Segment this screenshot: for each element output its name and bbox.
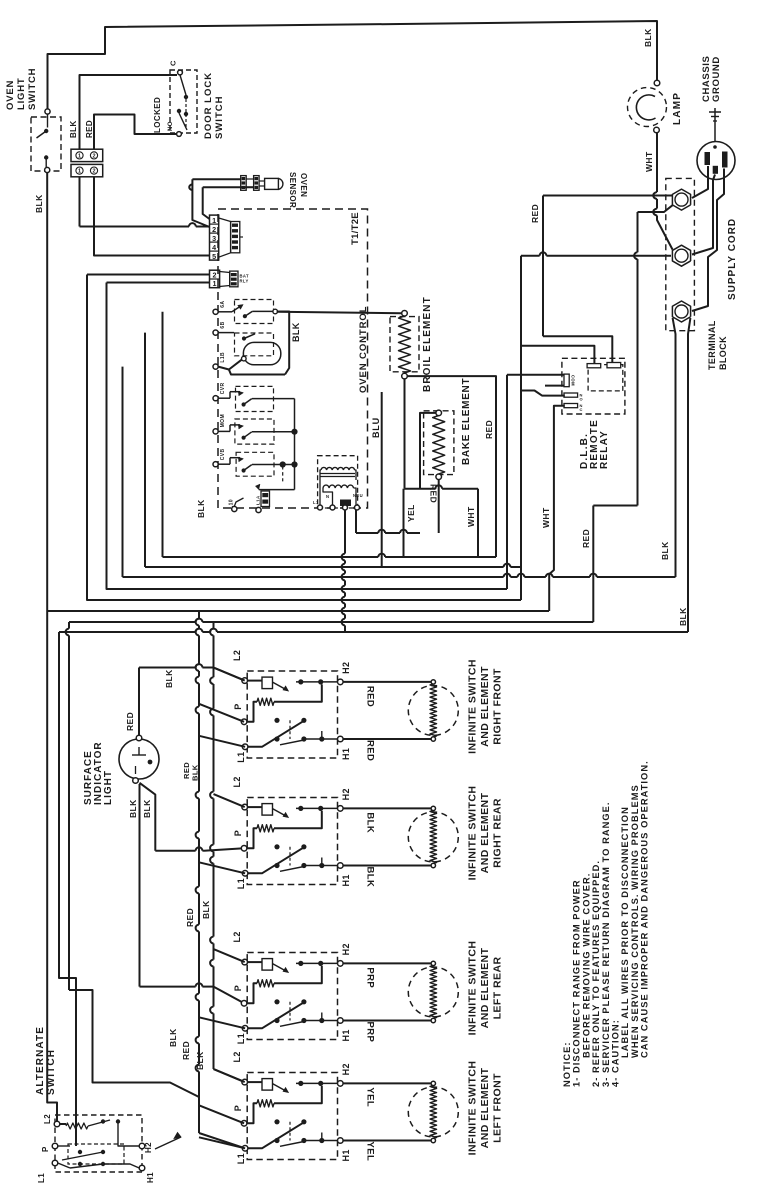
svg-text:BLK: BLK [142, 799, 152, 818]
svg-text:RED: RED [185, 908, 195, 927]
svg-text:BLK: BLK [660, 541, 670, 560]
svg-text:LABEL ALL WIRES PRIOR TO DISCO: LABEL ALL WIRES PRIOR TO DISCONNECTION [620, 806, 630, 1058]
svg-text:INFINITE SWITCH: INFINITE SWITCH [467, 659, 479, 754]
svg-text:NEU: NEU [353, 493, 363, 498]
svg-text:BLK: BLK [291, 322, 301, 342]
svg-text:RED: RED [365, 686, 376, 707]
svg-text:3: 3 [212, 234, 216, 243]
svg-text:L1: L1 [37, 1173, 46, 1183]
svg-text:RED: RED [125, 712, 135, 731]
svg-text:COM: COM [571, 375, 576, 386]
svg-text:YEL: YEL [365, 1142, 376, 1162]
svg-text:L1B: L1B [220, 352, 226, 363]
svg-text:RED: RED [181, 1041, 191, 1060]
svg-text:4: 4 [212, 243, 216, 252]
svg-text:P: P [233, 703, 243, 709]
svg-text:6A: 6A [220, 301, 226, 308]
svg-text:LEFT REAR: LEFT REAR [492, 956, 504, 1019]
svg-text:H2: H2 [341, 788, 351, 800]
svg-text:OVEN: OVEN [299, 173, 308, 197]
svg-text:OVEN: OVEN [5, 80, 16, 110]
svg-text:H1: H1 [341, 1029, 351, 1041]
svg-text:P: P [233, 985, 243, 991]
svg-text:CAN CAUSE IMPROPER AND DANGERO: CAN CAUSE IMPROPER AND DANGEROUS OPERATI… [640, 760, 650, 1058]
svg-text:BLU: BLU [371, 417, 381, 438]
svg-text:2: 2 [92, 169, 95, 175]
svg-text:WHT: WHT [466, 506, 476, 527]
svg-text:INFINITE SWITCH: INFINITE SWITCH [467, 1061, 479, 1156]
svg-text:AND ELEMENT: AND ELEMENT [479, 792, 491, 873]
svg-text:SENSOR: SENSOR [288, 172, 297, 208]
svg-text:SWITCH: SWITCH [46, 1049, 57, 1095]
svg-text:1: 1 [78, 169, 81, 175]
svg-text:2: 2 [212, 225, 216, 234]
svg-text:H1: H1 [341, 874, 351, 886]
svg-text:PRP: PRP [365, 1022, 376, 1043]
svg-text:H2: H2 [341, 662, 351, 674]
svg-text:LEFT FRONT: LEFT FRONT [492, 1073, 504, 1143]
svg-text:1: 1 [78, 153, 81, 159]
svg-text:2: 2 [92, 153, 95, 159]
svg-text:L2: L2 [232, 776, 242, 787]
svg-text:P: P [41, 1146, 50, 1152]
svg-text:BLK: BLK [365, 867, 376, 888]
svg-text:RIGHT FRONT: RIGHT FRONT [492, 668, 504, 745]
svg-text:L1: L1 [236, 1153, 246, 1164]
svg-text:BLK: BLK [69, 120, 78, 138]
svg-text:BLK: BLK [164, 669, 174, 688]
svg-text:L1: L1 [236, 1033, 246, 1044]
svg-text:H2: H2 [341, 1063, 351, 1075]
svg-text:1: 1 [213, 279, 217, 288]
svg-text:TERMINAL: TERMINAL [707, 320, 717, 370]
svg-text:AND ELEMENT: AND ELEMENT [479, 947, 491, 1028]
svg-text:NOTICE:: NOTICE: [562, 1041, 572, 1087]
svg-text:RELAY: RELAY [599, 430, 610, 469]
svg-text:BLK: BLK [128, 799, 138, 818]
svg-text:5: 5 [212, 252, 216, 261]
svg-text:CVR: CVR [220, 382, 226, 394]
svg-text:L2: L2 [232, 931, 242, 942]
svg-text:SWITCH: SWITCH [214, 96, 225, 139]
svg-text:LIGHT: LIGHT [103, 770, 114, 805]
svg-text:NO: NO [168, 121, 174, 131]
svg-text:CVB: CVB [220, 448, 226, 460]
svg-text:BLK: BLK [168, 1028, 178, 1047]
svg-text:L1A: L1A [256, 495, 261, 505]
svg-text:SWITCH: SWITCH [27, 68, 38, 110]
svg-text:2- REFER ONLY TO FEATURES EQUI: 2- REFER ONLY TO FEATURES EQUIPPED. [591, 860, 601, 1087]
svg-text:3- SERVICER PLEASE RETURN DIAG: 3- SERVICER PLEASE RETURN DIAGRAM TO RAN… [601, 801, 611, 1087]
svg-text:L2: L2 [232, 1051, 242, 1062]
svg-text:H1: H1 [146, 1172, 155, 1183]
svg-text:YEL: YEL [365, 1087, 376, 1107]
svg-text:DOOR LOCK: DOOR LOCK [203, 72, 214, 139]
svg-text:L2: L2 [43, 1114, 52, 1124]
svg-text:RED: RED [85, 120, 94, 138]
svg-text:P: P [233, 830, 243, 836]
svg-text:L1: L1 [236, 751, 246, 762]
svg-text:BLK: BLK [34, 194, 44, 213]
svg-text:BLOCK: BLOCK [718, 336, 728, 370]
svg-text:BLK: BLK [196, 499, 206, 518]
svg-text:SUPPLY CORD: SUPPLY CORD [727, 218, 738, 300]
svg-text:LIGHT: LIGHT [16, 78, 27, 111]
svg-text:INFINITE SWITCH: INFINITE SWITCH [467, 786, 479, 881]
svg-text:MOM: MOM [220, 414, 226, 427]
svg-text:YEL: YEL [406, 504, 416, 522]
svg-text:PRP: PRP [365, 967, 376, 988]
svg-text:C: C [580, 407, 583, 412]
svg-text:BLK: BLK [201, 900, 211, 919]
svg-text:WHEN SERVICING CONTROLS. WIRIN: WHEN SERVICING CONTROLS. WIRING PROBLEMS [630, 784, 640, 1058]
svg-text:BLK: BLK [365, 812, 376, 833]
svg-text:GROUND: GROUND [711, 56, 722, 102]
svg-text:L2: L2 [232, 650, 242, 661]
svg-text:L1: L1 [313, 500, 319, 505]
svg-text:BLK: BLK [678, 607, 688, 626]
svg-text:H1: H1 [341, 748, 351, 760]
svg-text:L10: L10 [229, 499, 235, 509]
svg-text:C: C [169, 60, 178, 66]
svg-text:AND ELEMENT: AND ELEMENT [479, 1067, 491, 1148]
svg-text:RED: RED [484, 420, 494, 439]
svg-text:AND ELEMENT: AND ELEMENT [479, 666, 491, 747]
svg-text:BLK: BLK [191, 764, 200, 781]
svg-text:BAKE ELEMENT: BAKE ELEMENT [461, 378, 472, 465]
svg-text:H1: H1 [341, 1149, 351, 1161]
svg-text:OVEN CONTROL: OVEN CONTROL [358, 306, 369, 393]
svg-text:L1: L1 [236, 878, 246, 889]
svg-text:RIGHT REAR: RIGHT REAR [492, 798, 504, 868]
svg-text:H2: H2 [341, 943, 351, 955]
svg-text:WHT: WHT [541, 507, 551, 528]
svg-text:P: P [233, 1105, 243, 1111]
svg-text:RED: RED [429, 484, 439, 503]
svg-text:RLY: RLY [240, 279, 249, 284]
svg-text:BLK: BLK [195, 1051, 205, 1070]
svg-text:BLK: BLK [643, 28, 653, 47]
svg-text:LAMP: LAMP [672, 92, 683, 125]
svg-text:BEFORE REMOVING WIRE COVER.: BEFORE REMOVING WIRE COVER. [581, 873, 591, 1058]
svg-text:1: 1 [212, 216, 216, 225]
svg-text:O: O [580, 397, 584, 402]
svg-text:ALTERNATE: ALTERNATE [35, 1026, 46, 1095]
svg-text:INFINITE SWITCH: INFINITE SWITCH [467, 941, 479, 1036]
svg-text:6B: 6B [220, 321, 226, 328]
svg-text:WHT: WHT [644, 151, 654, 172]
svg-text:T1/T2E: T1/T2E [350, 212, 361, 245]
svg-text:H2: H2 [144, 1142, 153, 1153]
svg-text:1- DISCONNECT RANGE FROM POWER: 1- DISCONNECT RANGE FROM POWER [572, 879, 582, 1087]
svg-text:LOCKED: LOCKED [153, 97, 162, 133]
svg-text:RED: RED [365, 740, 376, 761]
svg-text:4- CAUTION:: 4- CAUTION: [611, 1019, 621, 1087]
svg-text:BROIL ELEMENT: BROIL ELEMENT [422, 296, 433, 392]
svg-text:RED: RED [530, 204, 540, 223]
svg-text:RED: RED [581, 529, 591, 548]
svg-text:N: N [326, 494, 329, 499]
